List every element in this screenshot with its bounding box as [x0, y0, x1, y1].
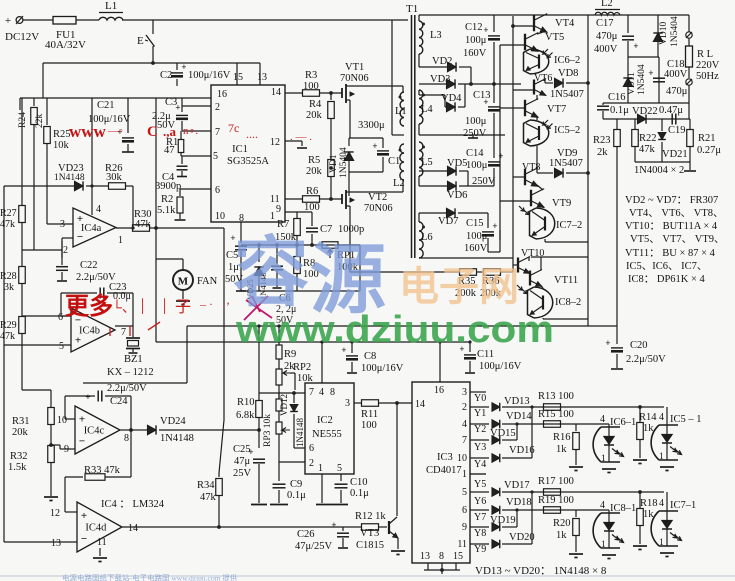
svg-text:250V: 250V — [472, 176, 496, 187]
svg-text:R25: R25 — [53, 129, 71, 140]
svg-text:1k: 1k — [556, 444, 567, 455]
svg-text:400V: 400V — [664, 69, 688, 80]
svg-text:1: 1 — [318, 463, 323, 474]
svg-text:5: 5 — [462, 487, 467, 498]
optocoupler IC6-2 — [536, 49, 538, 51]
svg-text:R29: R29 — [0, 320, 17, 331]
svg-text:220V: 220V — [696, 60, 720, 71]
diode VD7 — [418, 213, 420, 222]
resistor R29 47k — [19, 317, 26, 334]
svg-text:L2: L2 — [601, 0, 613, 9]
svg-text:VD7: VD7 — [438, 216, 458, 227]
svg-text:16: 16 — [434, 385, 444, 396]
ground output — [689, 162, 691, 170]
resistor R16 1k — [575, 424, 577, 431]
wire pins 15 13 to y63 — [236, 63, 238, 85]
svg-text:1: 1 — [659, 538, 664, 548]
transistor VT7 — [524, 100, 526, 117]
svg-text:7: 7 — [215, 127, 220, 138]
svg-text:C1815: C1815 — [356, 540, 384, 551]
svg-text:VT5、 VT7、 VT9、: VT5、 VT7、 VT9、 — [630, 234, 725, 245]
secondary winding L3 — [419, 21, 423, 54]
svg-text:R15 100: R15 100 — [538, 409, 574, 420]
svg-text:VT7: VT7 — [547, 104, 566, 115]
diode VD22 — [638, 114, 647, 123]
svg-text:VD12: VD12 — [279, 394, 289, 416]
capacitor C23 feedback — [61, 315, 71, 317]
svg-text:+: + — [498, 151, 503, 161]
svg-text:VD21: VD21 — [662, 149, 688, 160]
svg-text:R17 100: R17 100 — [538, 476, 574, 487]
rail x224 — [223, 228, 225, 326]
svg-text:R16: R16 — [553, 432, 571, 443]
Y7 row diode VD19 — [470, 526, 489, 528]
wire IC4c out and diode VD24 1N4148 — [120, 429, 131, 431]
resistor R36 200k — [476, 271, 484, 273]
pin8 stub and capacitor C5 1u/50V — [240, 222, 242, 243]
pin14 wire and resistor R3 100 — [285, 92, 302, 94]
svg-text:14: 14 — [415, 399, 425, 410]
transistor VT11 — [529, 271, 531, 286]
svg-text:100μ/16V: 100μ/16V — [361, 363, 404, 374]
svg-text:5.1k: 5.1k — [157, 205, 176, 216]
svg-text:100: 100 — [303, 81, 319, 92]
svg-text:R4: R4 — [309, 99, 322, 110]
svg-text:容: 容 — [233, 232, 309, 316]
resistor R11 100 — [354, 402, 362, 404]
svg-text:1N5407: 1N5407 — [549, 158, 583, 169]
svg-text:L1: L1 — [105, 0, 117, 12]
svg-text:1000p: 1000p — [338, 224, 364, 235]
svg-text:VD17: VD17 — [504, 480, 530, 491]
svg-text:5: 5 — [213, 151, 218, 162]
output rail x588 — [587, 15, 589, 326]
svg-text:2: 2 — [63, 245, 68, 256]
svg-text:+: + — [331, 520, 336, 530]
bottom rail y291 — [241, 290, 360, 292]
svg-text:5: 5 — [59, 341, 64, 352]
svg-text:4: 4 — [96, 204, 101, 215]
pin6 stub and resistor R2 5.1k — [180, 188, 211, 190]
svg-text:E: E — [137, 35, 144, 47]
svg-text:1: 1 — [270, 211, 275, 222]
junction dots — [515, 422, 518, 425]
capacitor C8 100u/16V — [351, 341, 353, 353]
wire snubber to VT2 — [348, 172, 350, 196]
node output A — [586, 81, 590, 85]
svg-text:100μ: 100μ — [465, 35, 487, 46]
svg-text:2: 2 — [215, 102, 220, 113]
svg-text:11: 11 — [270, 194, 280, 205]
svg-text:6: 6 — [309, 443, 314, 454]
Y2 row diode VD15 — [470, 439, 489, 441]
svg-text:1k: 1k — [643, 509, 654, 520]
svg-text:C14: C14 — [466, 148, 484, 159]
svg-text:KX – 1212: KX – 1212 — [107, 367, 154, 378]
transistor VT3 C1815 — [388, 521, 390, 534]
svg-text:└、: └、 — [112, 299, 136, 316]
resistor R33 47k — [65, 476, 83, 478]
capacitor C10 0.1u — [321, 474, 323, 503]
svg-text:Y1: Y1 — [474, 408, 486, 419]
svg-text:1: 1 — [601, 540, 606, 550]
pin1 stub Y5 — [470, 473, 486, 475]
svg-text:1N4004 × 2: 1N4004 × 2 — [634, 165, 684, 176]
svg-text:VD22: VD22 — [632, 106, 658, 117]
svg-text:Y6: Y6 — [474, 496, 486, 507]
svg-text:C17: C17 — [596, 18, 614, 29]
svg-text:1: 1 — [659, 452, 664, 462]
svg-text:VD14: VD14 — [506, 411, 532, 422]
svg-text:8: 8 — [124, 433, 129, 444]
svg-text:Y2: Y2 — [474, 424, 486, 435]
svg-text:1N5407: 1N5407 — [550, 89, 584, 100]
diode VD1 1N5404 — [349, 137, 383, 139]
wire fuse to L1 — [76, 19, 99, 21]
svg-text:VD8: VD8 — [558, 68, 578, 79]
svg-text:7c: 7c — [228, 121, 239, 135]
svg-text:VD20: VD20 — [509, 532, 535, 543]
svg-text:100μ/16V: 100μ/16V — [479, 361, 522, 372]
resistor R9 2k — [278, 326, 280, 345]
wire VT2 drain to winding L2w — [350, 191, 403, 193]
capacitor C11 100u/16V — [469, 341, 471, 352]
resistor R19 100 — [544, 507, 561, 514]
pin9 stub to R7 C7 — [285, 211, 312, 213]
IC3 CD4017 — [412, 382, 470, 563]
svg-text:NE555: NE555 — [312, 429, 342, 440]
svg-text:+: + — [605, 338, 610, 348]
optocoupler IC7-1 LED — [666, 492, 668, 511]
svg-text:R6: R6 — [306, 186, 318, 197]
svg-text:20k: 20k — [12, 427, 29, 438]
svg-text:www: www — [69, 122, 107, 141]
svg-text:RP3 10k: RP3 10k — [263, 414, 273, 447]
IC3 ground bracket — [427, 563, 429, 570]
opamp IC4c — [75, 406, 120, 454]
svg-text:6: 6 — [462, 505, 467, 516]
svg-text:R14: R14 — [639, 412, 657, 423]
svg-text:IC6–1: IC6–1 — [610, 417, 636, 428]
svg-text:VT2: VT2 — [368, 192, 387, 203]
svg-text:VD15: VD15 — [490, 428, 516, 439]
group4 top wire — [531, 256, 588, 258]
svg-text:+: + — [372, 141, 377, 151]
svg-text:4: 4 — [600, 414, 605, 425]
svg-text:5: 5 — [337, 463, 342, 474]
svg-text:+: + — [181, 62, 186, 72]
svg-text:Y3: Y3 — [474, 442, 486, 453]
svg-text:VT11: VT11 — [554, 275, 578, 286]
svg-text:R12 1k: R12 1k — [355, 511, 386, 522]
svg-text:6.8k: 6.8k — [236, 410, 255, 421]
svg-text:IC6–2: IC6–2 — [554, 55, 580, 66]
svg-text:3: 3 — [345, 398, 350, 409]
DC12V input terminal — [16, 17, 23, 24]
resistor R35 200k — [460, 269, 477, 276]
node switch to rail — [151, 61, 155, 65]
svg-text:IC4a: IC4a — [81, 223, 102, 234]
svg-text:....: .... — [246, 127, 258, 141]
resistor R34 47k — [218, 473, 220, 477]
svg-text:IC4b: IC4b — [79, 326, 100, 337]
opamp IC4b — [71, 308, 115, 352]
capacitor C26 47u/25V — [342, 527, 344, 531]
resistor R21 0.27u — [689, 119, 691, 130]
transistor VT4 — [533, 15, 535, 32]
svg-text:160V: 160V — [463, 48, 487, 59]
svg-text:IC3: IC3 — [437, 452, 453, 463]
diode VD12 1N4148 — [293, 393, 295, 403]
svg-text:C2: C2 — [160, 70, 172, 81]
capacitor C16 0.1u — [602, 103, 604, 105]
svg-text:VD5: VD5 — [447, 158, 467, 169]
opamp IC4d — [77, 502, 122, 552]
svg-text:更多: 更多 — [65, 293, 113, 320]
svg-text:VD10: VD10 — [659, 22, 669, 45]
svg-text:R22: R22 — [639, 133, 657, 144]
transistor VT6 — [533, 80, 535, 95]
svg-text:25V: 25V — [233, 468, 252, 479]
svg-text:47k: 47k — [200, 492, 217, 503]
diode VD9 1N5407 — [536, 169, 538, 173]
svg-text:R5: R5 — [308, 155, 320, 166]
wire inner top — [628, 56, 659, 58]
svg-text:20k: 20k — [306, 166, 323, 177]
svg-text:L3: L3 — [430, 30, 442, 41]
wire L6 bottom to G4 — [419, 257, 513, 259]
svg-text:4: 4 — [659, 412, 664, 423]
svg-text:+: + — [648, 68, 653, 78]
pin12 stub — [285, 140, 302, 142]
svg-text:2: 2 — [309, 458, 314, 469]
optocoupler IC7-2 — [542, 206, 544, 208]
svg-text:2.2μ/50V: 2.2μ/50V — [107, 383, 147, 394]
svg-text:R7: R7 — [277, 219, 289, 230]
svg-text:4: 4 — [659, 498, 664, 509]
svg-text:0.27μ: 0.27μ — [697, 145, 721, 156]
IC3 supply wire — [156, 341, 470, 343]
svg-text:RP2: RP2 — [293, 362, 311, 373]
resistor R22 47k — [634, 119, 636, 130]
svg-text:9: 9 — [276, 204, 281, 215]
svg-text:VT4、 VT6、 VT8、: VT4、 VT6、 VT8、 — [629, 208, 724, 219]
svg-text:R21: R21 — [698, 133, 716, 144]
Y9 row diode VD20 — [470, 543, 489, 545]
svg-text:Y4: Y4 — [474, 459, 486, 470]
svg-text:+: + — [633, 41, 638, 51]
driver rail A — [499, 45, 501, 240]
svg-text:+: + — [483, 25, 488, 35]
svg-text:−: − — [79, 436, 85, 448]
secondary winding L5 — [419, 142, 423, 176]
svg-text:40A/32V: 40A/32V — [45, 39, 86, 51]
svg-text:47k: 47k — [0, 331, 15, 342]
svg-text:VD11: VD11 — [627, 72, 637, 95]
svg-text:1: 1 — [118, 235, 123, 246]
RP3 10k potentiometer — [259, 392, 305, 394]
svg-text:10k: 10k — [53, 140, 70, 151]
svg-text:C21: C21 — [97, 100, 115, 111]
svg-text:+: + — [79, 413, 85, 425]
svg-text:2.2μ/50V: 2.2μ/50V — [626, 354, 666, 365]
diode VD10 1N5404 vertical — [657, 15, 659, 57]
svg-text:CD4017: CD4017 — [426, 465, 462, 476]
capacitor C6 2.2u/50V — [276, 245, 278, 264]
svg-text:100: 100 — [361, 420, 377, 431]
svg-text:IC8–1: IC8–1 — [610, 503, 636, 514]
capacitor C19 0.47u — [671, 114, 673, 125]
capacitor C18 470u/400V — [658, 57, 660, 103]
svg-text:子: 子 — [175, 298, 191, 316]
pin11 wire and resistor R6 100 — [285, 198, 302, 200]
svg-text:VD24: VD24 — [160, 416, 186, 427]
svg-text:470μ: 470μ — [666, 86, 688, 97]
optocoupler IC6-1 LED — [608, 424, 610, 427]
primary winding L2w — [400, 144, 404, 180]
resistor R7 150k — [296, 212, 298, 219]
svg-text:1N5404: 1N5404 — [339, 147, 349, 178]
wire to pin6 pin2 — [294, 447, 305, 449]
svg-text:1.5k: 1.5k — [8, 462, 27, 473]
svg-text:70N06: 70N06 — [364, 203, 393, 214]
svg-text:R20: R20 — [553, 518, 571, 529]
secondary winding L4 — [419, 90, 423, 124]
resistor R23 2k — [616, 119, 618, 130]
svg-text:VD18: VD18 — [506, 497, 532, 508]
svg-text:47k: 47k — [0, 219, 15, 230]
oscillator row y245 — [241, 244, 360, 246]
wire VT1 drain to winding — [350, 85, 403, 87]
wire VT2 source down to rail272 — [349, 206, 351, 272]
Y5 row diode VD17 — [470, 491, 489, 493]
output terminal top — [686, 32, 692, 38]
svg-text:10: 10 — [215, 211, 225, 222]
switch E — [152, 20, 154, 34]
svg-text:R19 100: R19 100 — [538, 495, 574, 506]
wire VT1 source down — [349, 100, 351, 138]
pin3 stub Y0 — [470, 391, 486, 393]
long rail y326 — [187, 325, 617, 327]
svg-text:VD2: VD2 — [432, 56, 452, 67]
IC2 supply stub — [321, 342, 323, 383]
svg-text:70N06: 70N06 — [340, 73, 369, 84]
Y6 row diode VD18 — [470, 509, 489, 511]
diode VD25 1N4148 vertical — [258, 245, 260, 262]
svg-text:IC4d: IC4d — [85, 523, 107, 534]
resistor R8 100 — [296, 245, 298, 256]
diode VD3 — [419, 83, 446, 85]
svg-text:C16: C16 — [608, 92, 626, 103]
load rail right — [688, 15, 690, 32]
svg-text:20k: 20k — [306, 110, 323, 121]
svg-text:13: 13 — [420, 551, 430, 562]
svg-text:+: + — [492, 221, 497, 231]
svg-text:+: + — [5, 15, 11, 27]
svg-text:11: 11 — [97, 537, 107, 548]
center tap wire — [392, 134, 404, 136]
svg-text:│: │ — [138, 298, 147, 314]
svg-text:16: 16 — [217, 89, 227, 100]
svg-text:VT10： BUT11A × 4: VT10： BUT11A × 4 — [625, 221, 718, 232]
svg-text:Y7: Y7 — [474, 512, 486, 523]
transistor VT5 — [524, 34, 526, 51]
svg-text:100μ: 100μ — [465, 116, 487, 127]
capacitor C7 1000p — [311, 212, 313, 226]
resistor R20 1k — [575, 510, 577, 517]
svg-text:C12: C12 — [465, 22, 483, 33]
Y3 row diode VD16 — [470, 457, 489, 459]
group3 bottom wire — [544, 239, 546, 242]
center tap rail y135 — [419, 134, 505, 136]
svg-text:3: 3 — [462, 387, 467, 398]
svg-text:C8: C8 — [364, 351, 376, 362]
left loop top wire — [20, 97, 211, 99]
svg-text:6: 6 — [215, 185, 220, 196]
svg-text:IC4 ： LM324: IC4 ： LM324 — [101, 499, 165, 510]
svg-text:VT5: VT5 — [545, 32, 564, 43]
svg-text:DC12V: DC12V — [5, 31, 39, 43]
svg-text:—◦: —◦ — [107, 125, 123, 137]
wire to C24 loop — [186, 326, 188, 383]
fuse FU1 40A/32V — [53, 17, 76, 25]
wire R30 node down — [154, 226, 158, 230]
svg-text:11: 11 — [457, 539, 467, 550]
resistor R15 100 — [544, 421, 561, 428]
svg-text:1: 1 — [462, 469, 467, 480]
wire IC4d output row — [122, 526, 360, 528]
svg-text:R32: R32 — [10, 451, 28, 462]
svg-text:IC7–2: IC7–2 — [556, 220, 582, 231]
svg-text:3300μ: 3300μ — [358, 120, 385, 131]
svg-text:R28: R28 — [0, 271, 17, 282]
svg-text:R24: R24 — [18, 112, 28, 128]
svg-text:1k: 1k — [556, 530, 567, 541]
svg-text:+: + — [85, 392, 90, 402]
svg-text:IC8： DP61K × 4: IC8： DP61K × 4 — [628, 274, 706, 285]
optocoupler IC5-2 — [536, 116, 538, 120]
svg-text:47μ: 47μ — [234, 456, 251, 467]
svg-text:47k: 47k — [639, 144, 656, 155]
resistor R25 10k vertical — [46, 98, 48, 125]
svg-text:BZ1: BZ1 — [124, 354, 143, 365]
svg-text:4: 4 — [319, 387, 324, 398]
svg-text:R13 100: R13 100 — [538, 391, 574, 402]
svg-text:C: C — [147, 124, 158, 140]
wire R28 to IC4b — [22, 315, 63, 317]
svg-text:10: 10 — [457, 453, 467, 464]
svg-text:R18: R18 — [640, 498, 658, 509]
snubber row y119 — [603, 118, 690, 120]
svg-text:4: 4 — [462, 419, 467, 430]
diode VD5 — [419, 170, 447, 172]
svg-text:470μ: 470μ — [596, 31, 618, 42]
svg-text:1k: 1k — [643, 423, 654, 434]
IC2 NE555 — [305, 383, 354, 474]
svg-text:R34: R34 — [197, 480, 215, 491]
capacitor C24 2.2u/50V feedback — [64, 396, 66, 419]
resistor R18 1k — [639, 492, 641, 508]
svg-text:100μ: 100μ — [466, 160, 488, 171]
svg-text:100: 100 — [304, 202, 320, 213]
svg-text:160V: 160V — [464, 243, 488, 254]
svg-text:L4: L4 — [421, 104, 433, 115]
resistor R28 3k — [21, 250, 23, 266]
svg-text:C15: C15 — [466, 218, 484, 229]
pin10 stub Y4 — [470, 473, 486, 475]
svg-text:0.1μ: 0.1μ — [610, 105, 629, 116]
capacitor C25 47u/25V — [258, 430, 260, 448]
